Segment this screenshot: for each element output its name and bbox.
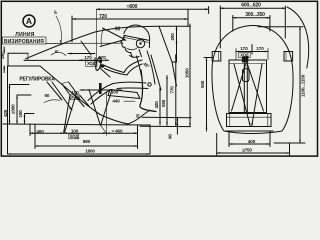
dim 400 (front bottom) (229, 143, 270, 145)
seat pan (227, 114, 272, 127)
svg-text:300...350: 300...350 (245, 12, 265, 18)
chin strap (127, 48, 138, 50)
dim ~600 (top) (97, 8, 209, 10)
svg-text:≥750: ≥750 (242, 148, 252, 153)
svg-text:1100...1150: 1100...1150 (300, 74, 305, 97)
pedals (two positions) (62, 84, 70, 95)
dim 170|170 with ХОД (front steering travel) (236, 51, 268, 53)
steering wheel (95, 57, 103, 71)
bottom dim chain: 400 / 100 ХОД / ~450 (30, 132, 138, 134)
seat angle 50 callout (44, 100, 60, 103)
ground line (3, 124, 150, 125)
svg-text:170: 170 (98, 55, 106, 60)
outer body arc (top right) (287, 7, 309, 68)
belt diagonals (232, 63, 247, 111)
svg-text:720: 720 (99, 14, 107, 20)
torso / back lines (147, 51, 155, 84)
svg-text:A: A (26, 16, 32, 26)
neck lines (131, 53, 133, 58)
hip joint circle (148, 83, 151, 86)
legs (113, 82, 146, 83)
svg-text:500: 500 (200, 80, 205, 88)
collar (130, 56, 140, 58)
svg-text:440: 440 (112, 99, 120, 104)
svg-text:РЕГУЛИРОВКА: РЕГУЛИРОВКА (19, 77, 55, 83)
foot (80, 96, 89, 107)
view marker circle A (23, 15, 35, 27)
hood / body top curve (26, 26, 160, 59)
firewall and floor (40, 66, 65, 87)
svg-text:100: 100 (18, 110, 23, 118)
extension line at back of seat (187, 9, 189, 26)
svg-text:ХОД: ХОД (71, 95, 79, 100)
dim 1100...1150 (right) (258, 26, 303, 28)
dim 500 (left) (206, 58, 208, 132)
svg-text:420: 420 (154, 101, 159, 109)
rear floor shelf (142, 116, 191, 118)
left vertical dims: 420 / >=300 / 100 (9, 85, 11, 124)
svg-text:550: 550 (161, 99, 166, 107)
svg-text:880: 880 (83, 139, 91, 144)
svg-text:≈ 460: ≈ 460 (112, 129, 123, 134)
svg-text:1050: 1050 (184, 68, 189, 78)
backrest slab (159, 25, 190, 27)
ground clearance dim 90 (176, 117, 178, 134)
svg-text:90: 90 (168, 134, 173, 139)
driver helmet dome (124, 25, 150, 47)
center damper box (243, 69, 250, 82)
svg-text:ХОД: ХОД (70, 134, 78, 139)
nose of body (front box) (8, 53, 40, 66)
steering column upper (81, 41, 91, 55)
center dark mount (242, 57, 248, 63)
gear lever (black knob bar) (99, 83, 102, 94)
wheel centre reference vertical (96, 9, 98, 63)
svg-text:170: 170 (240, 46, 248, 51)
driver face profile (121, 36, 131, 53)
rear body bottom (128, 110, 150, 124)
pedal extension lines to dim point (64, 95, 70, 133)
svg-text:170: 170 (256, 46, 264, 51)
svg-text:600...620: 600...620 (241, 2, 261, 8)
svg-text:90: 90 (115, 27, 121, 33)
seat back rectangle (229, 60, 267, 113)
svg-text:400: 400 (248, 139, 256, 144)
svg-text:250: 250 (0, 52, 5, 59)
dim 300...350 (233, 17, 270, 19)
vision cone + 90 label (103, 28, 126, 40)
border frame (1, 1, 317, 156)
base line (front view) (226, 130, 273, 132)
helmet edge band (124, 35, 149, 40)
lever travel dim 100|100 (80, 89, 122, 91)
seat shell rear curve (140, 70, 156, 112)
lever swing lines to floor pivot (89, 90, 100, 126)
arms to steering wheel (104, 60, 143, 73)
svg-text:770: 770 (169, 86, 174, 94)
sight line (horizontal, box to eye) (46, 42, 123, 44)
dim 600...620 (220, 7, 285, 9)
dim >=750 (front bottom) (217, 152, 290, 154)
svg-text:400: 400 (36, 129, 44, 134)
svg-text:ВИЗИРОВАНИЯ: ВИЗИРОВАНИЯ (4, 39, 44, 45)
svg-text:6°: 6° (55, 49, 59, 54)
hand dark blob (100, 64, 105, 68)
dim 880 (35, 145, 138, 147)
svg-text:≥300: ≥300 (10, 104, 15, 114)
seat backrest surface line (151, 55, 161, 90)
hood angle callout arc + labels (56, 16, 61, 43)
dim 170|170 (steering travel) with ХОД box (79, 59, 109, 61)
dim 200 (headrest) (176, 26, 178, 29)
leader arrow (68, 53, 95, 55)
svg-text:≈600: ≈600 (127, 4, 138, 10)
dim 1600 (overall length) (8, 153, 151, 155)
nose height dim arrows (3, 47, 5, 53)
svg-text:50: 50 (45, 93, 50, 98)
ear cup (136, 39, 144, 47)
body cross-section egg outline (212, 25, 293, 133)
svg-text:200: 200 (170, 33, 175, 41)
right ground segment (274, 142, 305, 144)
side handles (212, 52, 221, 62)
svg-text:ХОД: ХОД (87, 61, 95, 66)
right vertical dims: 420 550 770 1050 (159, 87, 161, 125)
dim 720 (top) (72, 18, 188, 20)
svg-text:170: 170 (84, 55, 92, 60)
seat cushion (110, 90, 137, 93)
center column strip (243, 57, 245, 113)
svg-text:1600: 1600 (85, 149, 95, 154)
